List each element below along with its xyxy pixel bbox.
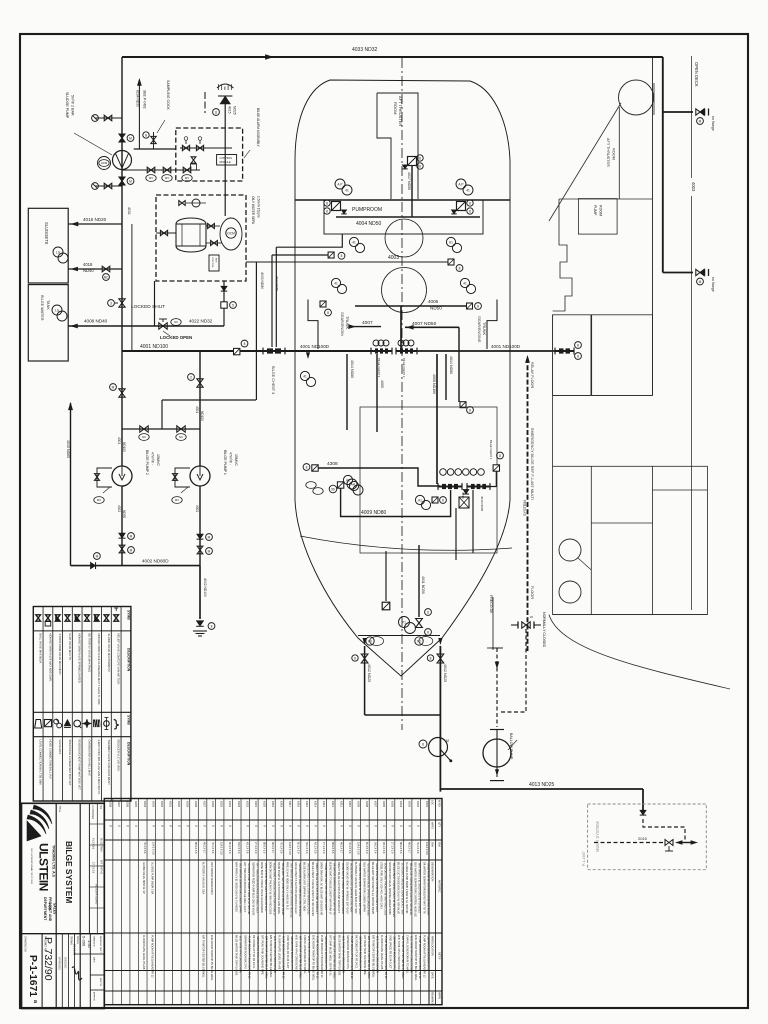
svg-text:AFT THRUSTER: AFT THRUSTER — [606, 138, 610, 167]
svg-text:4002 ND100: 4002 ND100 — [203, 578, 207, 597]
ulstein logo — [33, 805, 52, 824]
pipe 4015 into separator box — [224, 195, 226, 216]
svg-text:4014 ND80: 4014 ND80 — [350, 360, 354, 378]
scale cell — [61, 934, 63, 1009]
svg-text:F0: F0 — [368, 639, 372, 643]
flange branch upper — [663, 111, 693, 113]
svg-text://: // — [245, 825, 249, 827]
svg-text:BUTTERFLY VALVE W. GEA: BUTTERFLY VALVE W. GEA — [202, 862, 205, 895]
svg-text:STOP/STORM VALVE MAX NDXT: STOP/STORM VALVE MAX NDXT — [58, 634, 62, 676]
svg-text:4010 ND65: 4010 ND65 — [480, 496, 484, 512]
svg-text:LS: LS — [55, 308, 59, 312]
ship hull outline — [295, 80, 510, 676]
svg-text:K036: K036 — [126, 801, 130, 808]
svg-text:8: 8 — [244, 342, 246, 346]
pipe 4033 ND32 top run — [122, 56, 663, 58]
svg-text:GLOBE VALVE ND50 W. SP: GLOBE VALVE ND50 W. SP — [142, 862, 145, 894]
svg-text:BILGE CHEST 3: BILGE CHEST 3 — [271, 366, 275, 394]
pump2 relief loop — [97, 468, 112, 487]
svg-text:15MVC: 15MVC — [234, 454, 238, 466]
svg-text:1.5m³/h 15ppm: 1.5m³/h 15ppm — [257, 196, 261, 218]
svg-text:BILGE WATER TANK TOP FLANGE: BILGE WATER TANK TOP FLANGE — [235, 935, 238, 976]
svg-text:K034: K034 — [143, 801, 147, 808]
profile diagonal stay — [549, 103, 621, 221]
svg-text:8: 8 — [459, 266, 461, 270]
svg-text:5: 5 — [232, 303, 234, 307]
svg-text:4003 ND80: 4003 ND80 — [260, 272, 264, 289]
legend symbol2 row 4 — [64, 720, 71, 727]
svg-text:ROOM: ROOM — [612, 148, 616, 160]
svg-text:K037: K037 — [117, 801, 121, 808]
svg-text:SLUICE VALVE MAX BSDW PZ: SLUICE VALVE MAX BSDW PZ — [107, 634, 111, 673]
svg-text:NON RETURN VALVE SPRINGLOADED: NON RETURN VALVE SPRINGLOADED ND65 — [388, 862, 391, 915]
svg-text:MV: MV — [185, 176, 189, 180]
svg-text:27.1 X 2.9: 27.1 X 2.9 — [322, 842, 325, 854]
svg-text:M: M — [129, 136, 132, 140]
pipe 4008 ND100 — [436, 354, 438, 484]
svg-text:88.9 X 5.5: 88.9 X 5.5 — [262, 842, 265, 854]
svg-text:4016 ND20: 4016 ND20 — [83, 217, 107, 222]
svg-text://: // — [305, 825, 309, 827]
svg-text:A.P: A.P — [337, 182, 342, 186]
pipe 4033 down run — [662, 57, 664, 273]
pipe 4002 ND100 drop — [199, 566, 201, 619]
svg-text:ENG ROOM TANKTOP PS BILGE WELL: ENG ROOM TANKTOP PS BILGE WELL — [414, 935, 417, 981]
svg-text:76.1 X 3.6: 76.1 X 3.6 — [416, 842, 419, 854]
double arrow multi — [676, 841, 682, 845]
pipe 4022 line — [68, 325, 224, 327]
svg-text:K024: K024 — [228, 801, 232, 808]
svg-text:M: M — [130, 534, 133, 538]
svg-text:DIRECT BILGE SUCTION PUMP ROOM: DIRECT BILGE SUCTION PUMP ROOM AFT — [337, 862, 340, 913]
pump1 relief loop — [175, 468, 190, 487]
svg-text:BOW DK2 WAT PHUM LY W. NRV AND: BOW DK2 WAT PHUM LY W. NRV AND COCK — [268, 862, 271, 915]
svg-text:MV: MV — [175, 498, 179, 502]
svg-text:W.B. TANK 4 P+S CROSSOVER: W.B. TANK 4 P+S CROSSOVER — [295, 935, 298, 972]
relay floor dash line — [526, 356, 530, 362]
svg-text:ND50: ND50 — [122, 510, 126, 518]
svg-text:P-1-1667: P-1-1667 — [582, 851, 586, 866]
svg-text:K019: K019 — [271, 801, 275, 808]
pumproom box — [324, 200, 483, 234]
svg-text:K021: K021 — [254, 801, 258, 808]
svg-text:NON-RETURN VALVE SPRINGLOADED: NON-RETURN VALVE SPRINGLOADED — [78, 634, 82, 683]
svg-text:PIPE SCH 40 ND80 GALV L=6000 W: PIPE SCH 40 ND80 GALV L=6000 W. FLG — [286, 862, 289, 910]
svg-text:CHAIN LOCKER DRAIN TO WELL: CHAIN LOCKER DRAIN TO WELL — [303, 935, 306, 974]
svg-text:8: 8 — [215, 110, 217, 114]
svg-text:LOC: LOC — [431, 800, 434, 805]
svg-text:K015: K015 — [305, 801, 309, 808]
pipe 4012 right riser — [439, 646, 441, 792]
svg-text:4014 ND80: 4014 ND80 — [449, 356, 453, 374]
svg-text://: // — [117, 825, 121, 827]
svg-text:8: 8 — [430, 656, 432, 660]
svg-text:BILGE CHEST 1: BILGE CHEST 1 — [489, 440, 493, 460]
hatch circle 1 — [385, 219, 423, 257]
svg-text:LOCKED SHUT: LOCKED SHUT — [131, 304, 165, 310]
legend symbol row 3 — [55, 615, 60, 621]
svg-text:REMARKS: REMARKS — [431, 992, 434, 1005]
svg-text:NON-RETURN VALVE MAX NDS GMFL: NON-RETURN VALVE MAX NDS GMFL — [48, 634, 52, 683]
svg-text:K035: K035 — [134, 801, 138, 808]
svg-text:no flange: no flange — [711, 277, 715, 292]
svg-text:1:50: 1:50 — [87, 940, 92, 949]
svg-text:DENOMINATION: DENOMINATION — [431, 862, 434, 881]
svg-text:HOSE CONNECTION BALL VLV: HOSE CONNECTION BALL VLV — [48, 740, 52, 779]
svg-text://: // — [297, 825, 301, 827]
hull left circles — [300, 371, 309, 380]
pipe 4018 ND40 — [68, 268, 122, 270]
svg-text://: // — [279, 825, 283, 827]
svg-text:8: 8 — [326, 201, 328, 205]
svg-text:CONTROL: CONTROL — [220, 156, 233, 160]
svg-text:K038: K038 — [109, 801, 113, 808]
pipe 4006 ND50 — [355, 305, 467, 307]
svg-text:M: M — [699, 119, 702, 123]
svg-text:K014: K014 — [314, 801, 318, 808]
svg-text:3-WAY COCK W/L-PLUG VAN 2 MUA: 3-WAY COCK W/L-PLUG VAN 2 MUA W/T-PL — [97, 740, 101, 796]
svg-text:K008: K008 — [365, 801, 369, 808]
legend symbol2 row 3 — [54, 719, 59, 724]
svg-text:15MVC: 15MVC — [156, 454, 160, 466]
svg-text:RELIEF VALVE CSMTCPE VAN AW TS: RELIEF VALVE CSMTCPE VAN AW TSSA — [117, 634, 121, 685]
svg-text:TITLE: TITLE — [58, 806, 61, 813]
svg-text:SEE P-0492: SEE P-0492 — [143, 90, 147, 109]
svg-text://: // — [160, 825, 164, 827]
svg-text://: // — [177, 825, 181, 827]
svg-text:AFT SHIP 41: AFT SHIP 41 — [100, 860, 103, 875]
svg-text:8: 8 — [427, 630, 429, 634]
bilge chest 4 manifold — [371, 350, 392, 352]
svg-text:4002 ND80D: 4002 ND80D — [142, 559, 169, 564]
svg-text:TANK: TANK — [46, 300, 50, 310]
svg-text:LS: LS — [56, 250, 60, 254]
svg-text:OPEN DRAIN DK. W. BLGE WAT SD: OPEN DRAIN DK. W. BLGE WAT SD BLDN NR — [320, 862, 323, 915]
svg-text:4011 ND50: 4011 ND50 — [421, 576, 425, 594]
svg-text:VOID SPACE FR 30-34 SUCT: VOID SPACE FR 30-34 SUCT — [389, 935, 392, 969]
instrument pair hull 1 — [349, 237, 358, 246]
svg-text:OILY WATER SEPARATOR C: OILY WATER SEPARATOR C — [210, 862, 213, 895]
bilge water tank box — [28, 285, 68, 361]
svg-text:SEPARATOR ROOM DK 2 PS: SEPARATOR ROOM DK 2 PS — [346, 935, 349, 969]
svg-text:2015: 2015 — [638, 836, 648, 841]
sludge tank box — [28, 208, 68, 283]
separator drain line — [154, 281, 156, 326]
profile pump room box — [578, 199, 617, 235]
svg-text:8234 ND20: 8234 ND20 — [136, 90, 140, 107]
svg-text:BILGE WAT SEP PUMP W. EL MOTOR: BILGE WAT SEP PUMP W. EL MOTOR 5M3/H — [371, 862, 374, 914]
svg-text:43.1 X 3.6: 43.1 X 3.6 — [382, 842, 385, 854]
svg-text://: // — [399, 825, 403, 827]
svg-text:OILY WATER SEPA: OILY WATER SEPA — [251, 196, 255, 225]
svg-text:76.1 X 3.6: 76.1 X 3.6 — [279, 842, 282, 854]
alarm internal valves — [180, 147, 232, 149]
pipe 4006 drop — [400, 306, 402, 349]
svg-text://: // — [203, 825, 207, 827]
svg-text:5065 ULSTEINVIK NORWAY TLF 070: 5065 ULSTEINVIK NORWAY TLF 070 10600 — [30, 848, 33, 884]
svg-text:27.1 X 2.9: 27.1 X 2.9 — [391, 842, 394, 854]
svg-text:DATE: DATE — [93, 957, 96, 963]
bow well ellipse left — [370, 637, 384, 646]
svg-text:APPRVD: APPRVD — [93, 992, 96, 1001]
svg-text:DRAWN: DRAWN — [70, 936, 73, 945]
bow well ellipse right — [419, 637, 433, 646]
svg-text:60.3 X 3.9: 60.3 X 3.9 — [297, 842, 300, 854]
pipe 4014 ND80 port — [346, 354, 348, 430]
svg-text:HANDLED: HANDLED — [93, 936, 96, 947]
pipe chest3 node line — [272, 254, 328, 256]
svg-text://: // — [348, 825, 352, 827]
sludge pump circle — [113, 151, 132, 170]
svg-text:8: 8 — [354, 656, 356, 660]
svg-text:ROSEBOX/CHEST PUMP WAT BOX VET: ROSEBOX/CHEST PUMP WAT BOX VET — [78, 740, 82, 791]
svg-text:4012 ND25: 4012 ND25 — [367, 664, 371, 682]
svg-text:ND40: ND40 — [83, 268, 94, 273]
svg-text:MV: MV — [149, 176, 153, 180]
normally closed valve — [522, 622, 530, 628]
svg-text:FLAP VALVE MAX TS: FLAP VALVE MAX TS — [68, 634, 72, 661]
svg-text:47m³/h -: 47m³/h - — [229, 452, 233, 466]
svg-text:43.1 X 3.6: 43.1 X 3.6 — [245, 842, 248, 854]
oily water separator dashed box — [156, 195, 246, 281]
svg-text:60.3 X 3.9: 60.3 X 3.9 — [228, 842, 231, 854]
valve row y170 — [128, 169, 200, 171]
svg-text:BILGE SUCT ROSE BOX GALV W. NR: BILGE SUCT ROSE BOX GALV W. NR VALVE — [397, 862, 400, 914]
svg-text:K027: K027 — [203, 801, 207, 808]
svg-text:SYMB: SYMB — [127, 715, 131, 725]
control box separator — [209, 255, 219, 271]
svg-text:8: 8 — [145, 133, 147, 137]
svg-text:8: 8 — [469, 201, 471, 205]
svg-text:AFT PEAK TANK SOUNDING PIPE: AFT PEAK TANK SOUNDING PIPE — [260, 935, 263, 975]
profile porthole circles — [559, 539, 581, 561]
svg-text:8: 8 — [427, 610, 429, 614]
svg-text:ROOM: ROOM — [393, 102, 398, 114]
dashed suction ballow — [496, 648, 498, 727]
legend table frame — [33, 607, 131, 802]
svg-text:41: 41 — [463, 281, 467, 285]
svg-text:NC: NC — [174, 320, 178, 324]
svg-text:FLOOR PLATE LEVEL PS+SB: FLOOR PLATE LEVEL PS+SB — [142, 935, 145, 970]
svg-text:P. 732/90: P. 732/90 — [42, 937, 54, 981]
pipe 4012 left riser — [364, 646, 366, 715]
separator vessel — [176, 224, 206, 246]
svg-text:K003: K003 — [408, 801, 412, 808]
svg-text:K018: K018 — [279, 801, 283, 808]
svg-text:M: M — [446, 739, 449, 743]
pipe below separator — [223, 281, 225, 326]
svg-text:76.1 X 3.6: 76.1 X 3.6 — [348, 842, 351, 854]
svg-text:48.3 X 3.7: 48.3 X 3.7 — [271, 842, 274, 854]
svg-text:SAMPLING COCK: SAMPLING COCK — [166, 80, 170, 111]
svg-text:STEEL PIPE GALV SCH 40 L=6000: STEEL PIPE GALV SCH 40 L=6000 GALV — [380, 862, 383, 909]
header segment 2 — [284, 350, 372, 352]
svg-text:DEPT M: DEPT M — [99, 978, 101, 986]
svg-text:K030: K030 — [177, 801, 181, 808]
svg-text:M: M — [129, 179, 132, 183]
svg-text:8: 8 — [499, 454, 501, 458]
chest3 riser 4003 ND80 — [271, 255, 273, 347]
svg-text:FLOOR: FLOOR — [530, 586, 534, 599]
gauge on 4013 — [429, 738, 448, 757]
svg-text:TRUNK: TRUNK — [345, 316, 349, 330]
pipe 4004 ND50 — [336, 216, 480, 218]
svg-text:K011: K011 — [339, 801, 343, 807]
drawing no divider — [41, 934, 43, 1009]
svg-text:BILGE CHEST 3 VALVE CHEST W. N: BILGE CHEST 3 VALVE CHEST W. NR VALVES — [311, 862, 314, 916]
svg-text:PUMP ROOM AFT BULKHEAD FR 12: PUMP ROOM AFT BULKHEAD FR 12 — [150, 935, 153, 978]
svg-text:41: 41 — [466, 188, 470, 192]
svg-text:114.3 X 3.6: 114.3 X 3.6 — [151, 842, 154, 855]
svg-text:K028: K028 — [194, 801, 198, 808]
svg-text:41: 41 — [334, 281, 338, 285]
svg-text:8: 8 — [577, 343, 579, 347]
svg-text:4013 ND25: 4013 ND25 — [529, 782, 555, 788]
svg-text:8: 8 — [469, 209, 471, 213]
manifold instrument circles — [440, 469, 447, 476]
svg-text:88.9 X 5.5: 88.9 X 5.5 — [194, 842, 197, 854]
svg-text:SLUDGETK: SLUDGETK — [44, 222, 49, 245]
svg-text://: // — [262, 825, 266, 827]
svg-text:27.1 X 2.9: 27.1 X 2.9 — [92, 862, 95, 874]
svg-text:M: M — [699, 280, 702, 284]
svg-text:3: 3 — [110, 301, 112, 305]
svg-text://: // — [194, 825, 198, 827]
instrument pair hull 4 — [460, 278, 469, 287]
bilge alarm assembly box — [176, 128, 243, 181]
svg-text:4005: 4005 — [380, 380, 384, 388]
svg-text:W.B. TANK 4 P+S CROSSOVER: W.B. TANK 4 P+S CROSSOVER — [397, 935, 400, 972]
legend symbol2 row 1 — [35, 720, 42, 729]
svg-text:ENG ROOM TANKTOP PS BILGE WELL: ENG ROOM TANKTOP PS BILGE WELL — [210, 935, 213, 981]
svg-text:34.0 X 3.4: 34.0 X 3.4 — [373, 842, 376, 854]
svg-text:4033 ND32: 4033 ND32 — [352, 47, 378, 53]
svg-text:41: 41 — [345, 188, 349, 192]
svg-text:EMERGENCY BILGE REF F-1-667: EMERGENCY BILGE REF F-1-667 MULTI — [530, 428, 534, 500]
svg-text:4006: 4006 — [428, 299, 439, 304]
pipe 4014 ND80 stbd — [445, 354, 447, 400]
svg-text:60.3 X 3.9: 60.3 X 3.9 — [365, 842, 368, 854]
bilge chest 1 manifold a — [438, 486, 462, 488]
svg-text:41: 41 — [352, 240, 356, 244]
svg-text:8: 8 — [211, 624, 213, 628]
svg-text:GEAR/ENGIN: GEAR/ENGIN — [340, 312, 344, 336]
svg-text:SLUDGE PUMP 5M3/H 2 BAR W. EL: SLUDGE PUMP 5M3/H 2 BAR W. EL MOTOR — [405, 862, 408, 914]
valve multi — [665, 840, 673, 846]
svg-text://: // — [373, 825, 377, 827]
svg-text:CHAIN LOCKER DRAIN TO WELL: CHAIN LOCKER DRAIN TO WELL — [406, 935, 409, 974]
svg-text:NON-RETURN VALVE CLOSEABLE MAX: NON-RETURN VALVE CLOSEABLE MAX T GHSL TL… — [97, 634, 101, 705]
bilge chest 2 manifold — [396, 350, 417, 352]
svg-text:4007: 4007 — [362, 320, 373, 326]
svg-text:OPEN DECK: OPEN DECK — [694, 62, 699, 87]
pipe 4007 right — [405, 326, 459, 328]
profile bottom hull line — [549, 615, 730, 689]
svg-text:8: 8 — [469, 408, 471, 412]
svg-text:4012 ND25: 4012 ND25 — [443, 664, 447, 682]
svg-text://: // — [339, 825, 343, 827]
svg-text:8: 8 — [419, 156, 421, 160]
svg-text:ENG ROOM TANKTOP PS BILGE WELL: ENG ROOM TANKTOP PS BILGE WELL — [312, 935, 315, 981]
svg-text://: // — [322, 825, 326, 827]
svg-text:DK STORE AFT OF FR 24 CL: DK STORE AFT OF FR 24 CL — [354, 935, 357, 969]
svg-text:HAND PUMP W. SUCTION HOSE AND: HAND PUMP W. SUCTION HOSE AND ROSE — [426, 863, 429, 915]
svg-text:ND100: ND100 — [200, 411, 204, 421]
pipe 4016 ND20 — [68, 223, 122, 225]
svg-text:E/R TANKTOP CENTER BILGE WELL: E/R TANKTOP CENTER BILGE WELL — [371, 935, 374, 978]
svg-text:4008 ND40: 4008 ND40 — [84, 319, 108, 324]
dashed pipe multi horizontal — [594, 842, 663, 844]
svg-text:4022 ND32: 4022 ND32 — [189, 319, 213, 324]
svg-text:BALL VALVE MAX NDJA: BALL VALVE MAX NDJA — [39, 634, 43, 664]
svg-text:114.3 X 3.6: 114.3 X 3.6 — [288, 842, 291, 855]
svg-text:DEPARTMENT: DEPARTMENT — [43, 897, 47, 921]
svg-text:4003: 4003 — [388, 255, 399, 261]
profile deck 2 — [553, 394, 653, 396]
legend symbol row 1 — [36, 615, 41, 621]
parts list table frame — [104, 799, 442, 1005]
svg-text:8: 8 — [327, 311, 329, 315]
svg-text:SLUDGE PUMP 5M3/H 2 BA: SLUDGE PUMP 5M3/H 2 BA — [150, 862, 153, 895]
trunk structure right — [487, 300, 497, 350]
svg-text:PUMP ROOM AFT BULKHEAD FR 12: PUMP ROOM AFT BULKHEAD FR 12 — [320, 935, 323, 978]
svg-text:8: 8 — [442, 498, 444, 502]
svg-text:BILGE ALARM UNIT 15PPM W. CTRL: BILGE ALARM UNIT 15PPM W. CTRL MOD — [303, 862, 306, 911]
svg-text:HAND PUMP W. SUCTION HOSE AND: HAND PUMP W. SUCTION HOSE AND ROSE — [277, 862, 280, 914]
trunk structure left — [308, 300, 318, 350]
svg-text://: // — [382, 825, 386, 827]
svg-text:SCALE: SCALE — [76, 936, 79, 944]
svg-text:SPECTACLE FLANGE WAT BOX VET: SPECTACLE FLANGE WAT BOX VET — [68, 740, 72, 786]
legend symbol2 row 6 — [82, 719, 91, 728]
svg-text://: // — [391, 825, 395, 827]
svg-text:8: 8 — [341, 254, 343, 258]
header segment 3 — [416, 350, 556, 352]
svg-text://: // — [109, 825, 113, 827]
svg-text:PROJECT AND: PROJECT AND — [48, 897, 52, 922]
svg-text:48.3 X 3.7: 48.3 X 3.7 — [203, 842, 206, 854]
svg-text:M: M — [130, 548, 133, 552]
profile verticals under circle — [618, 107, 620, 199]
check valve chest1 — [463, 490, 468, 494]
svg-text:RELAY FLOOR: RELAY FLOOR — [530, 362, 534, 388]
svg-text:48.3 X 3.7: 48.3 X 3.7 — [408, 842, 411, 854]
svg-text:K004: K004 — [399, 801, 403, 808]
pipe 4013 ND25 — [440, 788, 643, 790]
svg-text:OCM: OCM — [227, 231, 235, 235]
svg-text:A1: A1 — [418, 498, 422, 502]
svg-text://: // — [126, 825, 130, 827]
svg-text:4007 ND50: 4007 ND50 — [412, 321, 437, 327]
svg-text:ULSTEIN: ULSTEIN — [37, 843, 51, 891]
svg-text:5m³/h 2 BAR: 5m³/h 2 BAR — [71, 95, 75, 116]
pipe drop from chest1 — [455, 508, 457, 560]
legend symbol row 8 — [104, 615, 109, 621]
rose box pumproom right — [457, 202, 466, 211]
instrument pair hull 3 — [331, 278, 340, 287]
svg-text:CONTROL: CONTROL — [211, 257, 213, 268]
svg-text:34.0 X 3.4: 34.0 X 3.4 — [237, 842, 240, 854]
svg-text:K007: K007 — [373, 801, 377, 808]
svg-text:76.1 X 3.6: 76.1 X 3.6 — [143, 842, 146, 854]
legend symbol row 5 — [75, 615, 80, 621]
bridge line to chest3 — [162, 399, 256, 401]
svg-text:K006: K006 — [382, 801, 386, 808]
svg-text:SEPARATOR ROOM DK 2 PS: SEPARATOR ROOM DK 2 PS — [243, 935, 246, 969]
svg-text:AFT THRUSTER ROOM BILGE WELL S: AFT THRUSTER ROOM BILGE WELL SUCT — [243, 862, 246, 913]
svg-text://: // — [168, 825, 172, 827]
svg-text:4009 ND80: 4009 ND80 — [361, 510, 387, 516]
